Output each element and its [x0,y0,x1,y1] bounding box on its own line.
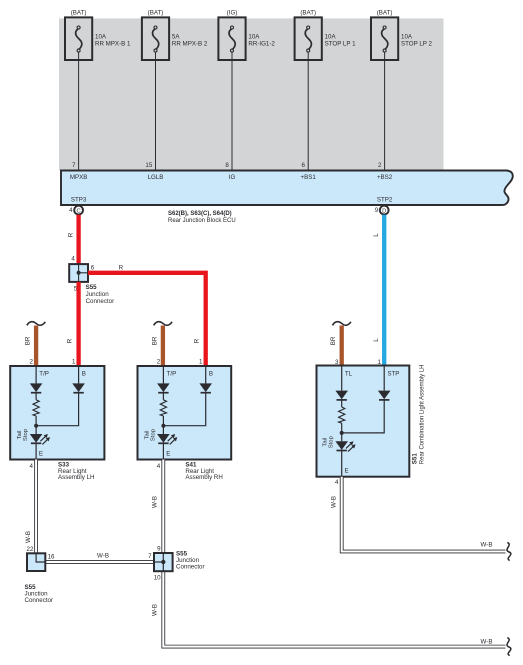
wire break symbol [27,322,45,326]
wire stop branch [78,366,80,383]
svg-text:W-B: W-B [481,638,493,645]
wire W-B from S33 pin 4 to S55 pin 22 [34,460,38,554]
wire break symbol (stop/tail ground, right) [507,543,511,561]
wire [341,433,343,441]
LED tail/stop lamp [157,434,170,443]
diode stop [199,383,212,392]
svg-text:W-B: W-B [152,604,159,616]
svg-text:(BAT): (BAT) [377,10,393,17]
svg-text:STP: STP [387,370,399,377]
diode tail [30,383,43,392]
svg-text:2: 2 [157,358,161,365]
wire to E pin [341,450,343,476]
label S55 Junction Connector (bottom left) [25,584,54,604]
svg-text:BR: BR [25,336,32,345]
svg-text:4: 4 [71,255,75,262]
wire [35,416,37,426]
wire from fuse 10A STOP LP 2 to junction block ECU pin 2 [384,52,386,170]
svg-text:Stop: Stop [329,435,335,448]
wire L from STP2 to S51 pin STP [382,215,386,366]
svg-text:1: 1 [378,359,382,366]
svg-text:B: B [82,370,86,377]
wire [35,426,37,434]
wire from fuse 5A RR MPX-B 2 to junction block ECU pin 15 [155,52,157,170]
label S51 Rear Combination Light Assembly LH [411,364,425,464]
svg-text:Connector: Connector [176,563,205,570]
resistor tail [160,400,166,416]
svg-text:RR MPX-B 2: RR MPX-B 2 [172,40,208,47]
svg-text:Stop: Stop [23,428,29,441]
svg-text:S51: S51 [411,453,418,465]
wire tail branch [162,366,164,383]
svg-text:Connector: Connector [86,298,115,305]
svg-text:22: 22 [27,546,34,553]
wire to E pin [35,443,37,459]
svg-text:B: B [209,370,213,377]
fuse 10A STOP LP 1 [295,17,322,60]
value label 10A RR MPX-B 1 [95,33,131,47]
wire R from STP3 to junction connector S55 [76,215,80,265]
wire BR (tail feed) [34,326,38,367]
svg-text:1: 1 [199,358,203,365]
value label 10A RR-IG1-2 [248,33,275,47]
wire to E pin [162,443,164,459]
fuse 10A RR MPX-B 1 [65,17,92,60]
svg-text:Assembly RH: Assembly RH [185,474,222,481]
fuse 10A RR-IG1-2 [218,17,245,60]
wire break symbol (rear ground, bottom right) [507,638,511,656]
connector D pin 9 (STP2) [380,206,389,215]
rear light assembly box [317,366,410,477]
svg-text:10: 10 [154,575,161,582]
connector C pin 4 (STP3) [74,206,83,215]
svg-text:T/P: T/P [167,370,177,377]
wire BR (tail feed) [161,326,165,367]
svg-text:Rear Junction Block ECU: Rear Junction Block ECU [168,218,236,224]
wire stop branch [205,366,207,383]
wire W-B from S55 pin 16 to S55 pin 7 [45,560,154,564]
node junction dot [34,424,38,428]
svg-text:W-B: W-B [25,531,32,543]
wire tail branch [35,366,37,383]
wire [341,423,343,433]
value label 10A STOP LP 1 [325,33,357,47]
node junction dot [161,424,165,428]
wire W-B from S55 pin 10 to rear ground [163,571,505,646]
svg-text:RR MPX-B 1: RR MPX-B 1 [95,40,131,47]
svg-text:9: 9 [375,207,379,214]
label S55 Junction Connector [86,284,115,305]
svg-text:(BAT): (BAT) [300,10,316,17]
svg-text:BR: BR [151,336,158,345]
svg-text:2: 2 [378,162,382,169]
svg-text:R: R [119,264,124,271]
svg-text:C: C [77,208,81,214]
svg-text:W-B: W-B [481,542,493,549]
svg-text:STOP LP 2: STOP LP 2 [401,40,433,47]
value label 10A STOP LP 2 [401,33,433,47]
svg-text:16: 16 [48,553,55,560]
junction connector S55 (top) [69,264,88,282]
svg-text:W-B: W-B [152,496,159,508]
svg-text:W-B: W-B [330,496,337,508]
svg-text:STP3: STP3 [71,197,87,204]
svg-text:E: E [345,468,349,475]
rear light assembly box [138,366,232,460]
svg-text:R: R [67,338,74,343]
svg-text:S55: S55 [86,284,98,291]
svg-text:TL: TL [345,370,353,377]
svg-text:Rear Combination Light Assembl: Rear Combination Light Assembly LH [420,364,426,464]
svg-text:4: 4 [69,207,73,214]
wire break symbol [333,322,351,326]
wire break symbol [154,322,172,326]
resistor tail [33,400,39,416]
svg-text:4: 4 [335,479,339,486]
svg-text:Connector: Connector [25,597,54,604]
svg-text:STP2: STP2 [377,197,393,204]
svg-text:(BAT): (BAT) [71,10,87,17]
label Tail Stop [144,428,156,441]
label Tail Stop [17,428,29,441]
wire W-B from S51 pin 4 to body ground [342,477,506,552]
svg-text:+BS2: +BS2 [377,174,393,181]
wire from fuse 10A RR MPX-B 1 to junction block ECU pin 7 [78,52,80,170]
svg-text:E: E [39,450,43,457]
wire BR (tail feed) [340,326,344,367]
svg-text:(IG): (IG) [227,10,238,17]
wire R from S55 pin 5 to S33 pin B [76,282,80,366]
svg-text:5A: 5A [172,33,180,40]
wire stop branch to node [36,393,79,426]
svg-text:E: E [166,450,170,457]
wire [162,426,164,434]
wire [341,400,343,407]
LED tail/stop lamp [30,434,43,443]
svg-text:6: 6 [91,265,95,272]
label S55 Junction Connector (bottom middle) [176,551,205,571]
rear junction block ECU S62(B) S63(C) S64(D) [61,171,513,206]
junction connector S55 (bottom left) [27,553,45,571]
svg-text:LGLB: LGLB [148,174,164,181]
wire W-B from S41 pin 4 to S55 pin 9 [161,460,165,554]
svg-text:15: 15 [145,162,152,169]
wire [35,393,37,400]
svg-text:L: L [373,338,380,342]
node junction dot [340,431,344,435]
diode stop [378,391,391,400]
svg-text:MPXB: MPXB [70,174,88,181]
svg-text:L: L [373,233,380,237]
svg-text:9: 9 [157,545,161,552]
wire from fuse 10A RR-IG1-2 to junction block ECU pin 8 [231,52,233,170]
svg-text:4: 4 [29,463,33,470]
wire from fuse 10A STOP LP 1 to junction block ECU pin 6 [307,52,309,170]
svg-text:IG: IG [229,174,236,181]
svg-text:7: 7 [148,553,152,560]
wire [162,416,164,426]
svg-text:S62(B), S63(C), S64(D): S62(B), S63(C), S64(D) [168,211,232,217]
diode stop [72,383,85,392]
svg-text:10A: 10A [401,33,413,40]
rear light assembly box [10,366,104,460]
wire [162,393,164,400]
svg-text:Stop: Stop [150,428,156,441]
svg-text:10A: 10A [95,33,107,40]
svg-text:+BS1: +BS1 [301,174,317,181]
label S41 Rear Light Assembly RH [185,461,222,481]
svg-text:STOP LP 1: STOP LP 1 [325,40,357,47]
ECU name S62(B), S63(C), S64(D) Rear Junction Block ECU [168,211,236,224]
svg-text:R: R [194,338,201,343]
svg-text:3: 3 [335,359,339,366]
wire R from S55 pin 6 to S41 pin B [88,273,206,366]
svg-text:8: 8 [225,162,229,169]
svg-text:BR: BR [330,336,337,345]
svg-text:W-B: W-B [97,553,109,560]
svg-text:Assembly LH: Assembly LH [58,474,94,481]
svg-text:(BAT): (BAT) [148,10,164,17]
diode tail [157,383,170,392]
svg-text:4: 4 [157,463,161,470]
svg-text:D: D [382,208,386,214]
LED tail/stop lamp [335,441,348,450]
svg-text:2: 2 [29,358,33,365]
label S33 Rear Light Assembly LH [58,461,94,481]
svg-text:RR-IG1-2: RR-IG1-2 [248,40,275,47]
wire tail branch [341,366,343,391]
svg-text:10A: 10A [248,33,260,40]
fuse 10A STOP LP 2 [371,17,398,60]
wire stop branch to node [342,400,385,433]
resistor tail [339,407,345,423]
rear junction block fuse area [59,18,444,170]
junction connector S55 (bottom middle) [154,553,173,571]
svg-text:7: 7 [72,162,76,169]
svg-text:1: 1 [72,358,76,365]
svg-text:10A: 10A [325,33,337,40]
diode tail [335,391,348,400]
fuse 5A RR MPX-B 2 [142,17,169,60]
svg-text:6: 6 [302,162,306,169]
svg-text:R: R [68,232,75,237]
value label 5A RR MPX-B 2 [172,33,208,47]
label Tail Stop [323,435,335,448]
wire stop branch to node [163,393,205,426]
wire stop branch [383,366,385,391]
svg-text:T/P: T/P [39,370,49,377]
